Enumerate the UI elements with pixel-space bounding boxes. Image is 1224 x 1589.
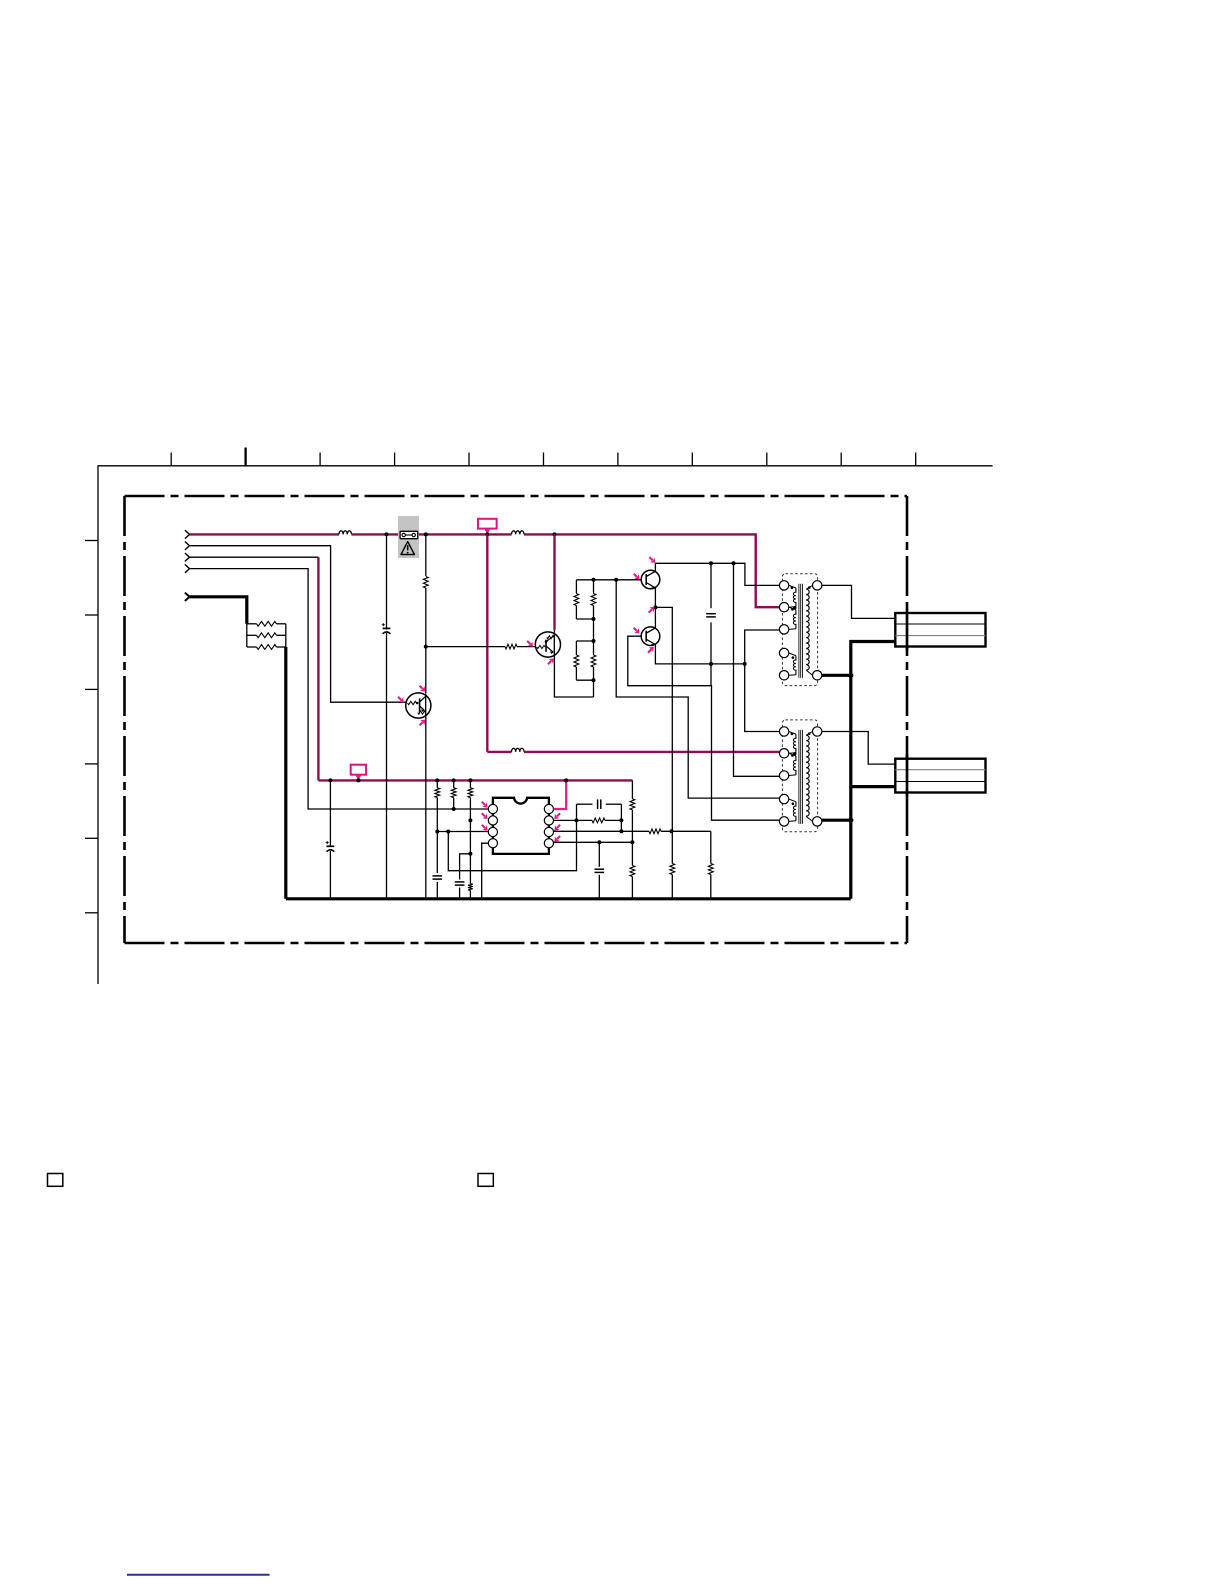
wire Q2 emitter branch right: [655, 607, 672, 831]
wire x632 lower resistor: [631, 842, 633, 865]
junction dot: [328, 778, 332, 782]
wire T2 sec top to CN2: [822, 732, 895, 765]
junction dot: [435, 778, 439, 782]
wire U1 pin6 line: [554, 830, 649, 832]
junction dot: [592, 617, 596, 621]
wire T1 sec bottom to bus (thick): [822, 674, 851, 677]
wire T2 sec bottom to bus (thick): [822, 819, 851, 822]
capacitor C5: [455, 881, 465, 883]
U1 pin 6 circle: [544, 827, 553, 836]
top ruler tick marks: [171, 448, 916, 466]
junction dot: [597, 840, 601, 844]
resistor R8: [574, 655, 579, 667]
capacitor C6: [597, 799, 599, 809]
transistor Q2: [641, 570, 660, 590]
capacitor C1 (electrolytic): [382, 630, 391, 633]
dot Q1 internal: [416, 702, 419, 705]
junction dot: [468, 852, 472, 856]
U1 pin 3 circle: [488, 827, 497, 836]
arrow U1 pin1: [482, 802, 488, 808]
wire IN1 magenta bus segment d: [524, 533, 756, 535]
resistor R5 inline: [505, 644, 517, 649]
wire IN1 magenta bus segment c: [417, 533, 511, 535]
junction dot: [452, 807, 456, 811]
arrow U1 pin3: [482, 825, 488, 831]
wire x744 T1pin3-T2pin1: [745, 630, 779, 732]
ground bus (thick): [286, 897, 851, 900]
input arrow IN2: [185, 542, 190, 550]
magenta wire to T2 pin2 a: [487, 751, 511, 753]
resistor Q1 base internal: [408, 701, 417, 704]
arrow Q2 top: [649, 557, 655, 563]
resistor Q4 upper internal: [547, 636, 554, 639]
op-amp U1 body: [493, 798, 549, 854]
capacitor C4: [433, 875, 443, 877]
feedback loop verticals: [576, 804, 578, 820]
junction dot: [452, 778, 456, 782]
arrow U1 pin7: [554, 813, 560, 819]
footer link line: [127, 1574, 270, 1576]
inductor L3: [512, 748, 525, 752]
junction dot: [670, 829, 674, 833]
wire Q3 emitter: [655, 645, 744, 664]
transistor Q3: [641, 627, 660, 647]
resistor R15 inline: [649, 829, 661, 834]
U1 pin 2 circle: [488, 816, 497, 825]
transformer T1: [779, 574, 822, 686]
resistor R2: [247, 634, 257, 636]
wire IN2: [190, 546, 406, 703]
resistor R18: [630, 799, 635, 810]
resistor R9: [591, 655, 596, 667]
wire x470 lower: [469, 820, 471, 883]
wire IN3: [190, 556, 319, 558]
wire U1 pin4: [482, 843, 489, 899]
U1 pin 4 circle: [488, 839, 497, 848]
arrow Q1 top: [420, 686, 426, 692]
wire thick to CN1 row3: [850, 640, 896, 643]
resistor pair rails top: [575, 580, 577, 594]
arrow U1 pin5: [554, 836, 560, 842]
resistor R19: [630, 866, 635, 877]
input arrow IN3: [185, 553, 190, 561]
resistor R7: [591, 594, 596, 606]
wire U1 pin3 line: [437, 831, 488, 833]
resistor Q4 base internal: [537, 645, 545, 648]
wire x733 to T2 pin3: [734, 563, 780, 776]
wire Q4 emitter to stack: [554, 657, 593, 697]
capacitor C7: [595, 868, 605, 870]
wire Q3 collector: [654, 607, 656, 628]
arrow Q3 base: [634, 628, 640, 634]
resistor R6: [574, 594, 579, 606]
inductor L1: [339, 531, 351, 535]
wire Q2 emitter: [654, 588, 656, 608]
wire pin6 line b: [661, 830, 711, 832]
wire rail2: [576, 640, 593, 642]
wire R11 leads: [453, 780, 455, 787]
junction dot: [468, 778, 472, 782]
wire x671 resistor to ground: [671, 831, 673, 863]
junction dot: [743, 662, 747, 666]
wire Q3 base: [628, 636, 779, 820]
wire x616 vertical: [616, 580, 779, 798]
junction dot: [619, 818, 623, 822]
arrow Q4 base: [527, 641, 533, 647]
magenta wire to T2 pin2 b: [524, 751, 779, 753]
wire base rail to Q2: [594, 579, 642, 581]
wire IN5 (thick): [190, 597, 247, 624]
wire magenta drop to T1 pin2: [756, 533, 779, 607]
resistor R14 inline: [592, 818, 605, 823]
junction dot: [356, 778, 360, 782]
junction dot: [709, 662, 713, 666]
resistor R4: [421, 576, 430, 588]
junction dot: [424, 532, 428, 536]
junction dot: [485, 532, 489, 536]
wire x599 cap to ground: [598, 842, 600, 867]
magenta flag tag 2: [478, 519, 497, 529]
resistor R11: [451, 788, 456, 798]
connector CN2: [895, 759, 985, 793]
arrow Q1 base: [398, 697, 404, 703]
wire IN3 magenta vertical: [317, 557, 319, 780]
wire x711 capacitor branch b: [710, 622, 712, 685]
arrow Q3 bottom: [648, 647, 654, 653]
arrow U1 pin6: [554, 825, 560, 831]
arrow Q4 bottom: [548, 658, 554, 664]
junction dot: [553, 532, 557, 536]
wire Q4 base b: [517, 646, 535, 648]
wire Q2 collector: [655, 563, 779, 585]
resistor group rails: [246, 624, 248, 647]
fuse F1 with warning label: [398, 516, 419, 558]
wire thick to CN2 row3: [850, 785, 896, 788]
resistor R13: [468, 884, 473, 891]
input arrow IN1: [185, 530, 190, 538]
junction dot: [592, 578, 596, 582]
magenta vertical x554 (Q4 collector): [553, 534, 555, 629]
resistor Q1 emitter internal: [418, 711, 426, 714]
inductor L2: [512, 531, 525, 535]
wire x425 vertical upper: [425, 534, 427, 693]
junction dot: [614, 578, 618, 582]
bright pink wire to U1 pin8: [554, 780, 567, 809]
wire U1 pin5 line: [554, 841, 633, 843]
wire R12 leads: [469, 780, 471, 787]
wire IN1 magenta bus segment a: [190, 533, 340, 535]
wire x711 capacitor branch: [710, 563, 712, 608]
junction dot thick: [848, 818, 853, 823]
resistor R1: [247, 623, 257, 625]
wire T1 sec top to CN1: [822, 585, 895, 618]
wire x425 vertical lower: [425, 718, 427, 899]
junction dot: [435, 830, 439, 834]
junction dot: [592, 639, 596, 643]
junction dot: [630, 840, 634, 844]
arrow U1 pin2: [482, 813, 488, 819]
resistor R12: [468, 788, 473, 798]
wire mid vertical2: [593, 641, 595, 655]
resistor R10: [435, 788, 440, 798]
checkbox square 2: [478, 1174, 493, 1187]
wire x632 mid: [631, 810, 633, 842]
wire pin3 feedback leg: [448, 820, 576, 870]
transformer T2: [779, 720, 822, 832]
plot frame top ruler line: [98, 465, 993, 467]
U1 pin 8 circle: [544, 804, 553, 813]
input arrow IN5: [185, 593, 190, 601]
board outline (dash-dot border): [125, 496, 908, 943]
resistor pair rails bottom: [575, 641, 577, 655]
capacitor C3 branch (electrolytic): [329, 780, 331, 846]
arrow Q1 bottom: [420, 720, 426, 726]
junction dot: [468, 818, 472, 822]
U1 pin 1 circle: [488, 804, 497, 813]
wire x710 resistor to ground: [710, 831, 712, 863]
resistor R16: [670, 864, 675, 875]
transistor Q1: [406, 693, 431, 718]
wire IN1 magenta bus segment b: [352, 533, 401, 535]
wire Q1 base: [405, 701, 407, 703]
wire thick down to ground bus: [284, 647, 287, 899]
magenta vertical x487: [486, 534, 488, 752]
U1 pin 5 circle: [544, 839, 553, 848]
left ruler tick marks: [85, 541, 98, 913]
wire mid vertical: [593, 580, 595, 594]
capacitor C2: [706, 613, 716, 615]
junction dot: [424, 645, 428, 649]
wire pin7 line b: [605, 819, 621, 821]
wire Q4 base: [426, 646, 505, 648]
board border over connectors: [906, 609, 909, 650]
feedback capacitor loop: [577, 803, 593, 805]
wire rail: [576, 579, 593, 581]
resistor R3: [247, 646, 257, 648]
junction dot: [385, 532, 389, 536]
wire R10 leads: [436, 780, 438, 787]
input arrow IN4: [185, 564, 190, 572]
checkbox square 1: [48, 1174, 63, 1187]
dot Q4 internal: [545, 641, 548, 644]
wire x632 resistor from bus: [631, 780, 633, 798]
wire U1 pin7 line: [554, 819, 592, 821]
arrow Q2 bottom: [649, 607, 655, 613]
wire x386 vertical: [386, 534, 388, 898]
junction dot: [564, 778, 568, 782]
wire cap C5 branch: [460, 854, 471, 880]
wire IN4: [190, 569, 489, 809]
wire Q4 collector-emitter vertical: [553, 630, 555, 632]
plot frame left ruler line: [97, 466, 99, 984]
junction dot: [592, 678, 596, 682]
thick vertical x851: [849, 640, 852, 899]
wire x437 lower with cap: [436, 832, 438, 874]
magenta flag tag 1: [351, 765, 366, 775]
arrow Q2 base: [634, 574, 640, 580]
junction dot: [446, 830, 450, 834]
junction dot: [619, 829, 623, 833]
junction dot thick: [848, 673, 853, 678]
transistor Q4: [535, 632, 560, 657]
U1 pin 7 circle: [544, 816, 553, 825]
resistor R17: [708, 864, 713, 875]
junction dot: [653, 605, 657, 609]
wire magenta bus lower: [318, 779, 632, 781]
connector CN1: [895, 613, 985, 647]
wire y563 junction dots: [709, 561, 713, 565]
junction dot: [575, 818, 579, 822]
